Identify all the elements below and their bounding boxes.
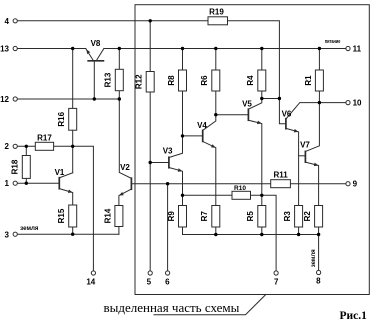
svg-text:7: 7 — [274, 277, 279, 286]
svg-text:R18: R18 — [11, 159, 20, 174]
svg-text:V6: V6 — [282, 109, 292, 118]
figure label Рис.1 — [340, 310, 368, 322]
node R8 bottom / V3 collector / V4 base — [181, 134, 184, 137]
svg-text:R15: R15 — [57, 208, 66, 223]
svg-text:14: 14 — [86, 277, 95, 286]
transistor V4 — [197, 121, 216, 148]
resistor R15 — [57, 205, 77, 227]
node R16 top on power bus — [71, 47, 74, 50]
terminal 11 circle — [346, 46, 350, 50]
svg-text:R6: R6 — [200, 75, 209, 86]
node R4 top on power bus — [260, 47, 263, 50]
wire V1 collector diagonal — [59, 173, 72, 178]
wire terminal 7 column — [262, 195, 276, 270]
wire V2 base to R11 left (y=183.7) — [131, 183, 270, 185]
node R19 left / R12 top junction — [149, 19, 152, 22]
wire V6 emitter / R3 column (x=298.6) — [286, 128, 299, 234]
pin number 12 — [0, 95, 9, 104]
node R12 bottom / V3 base — [149, 161, 152, 164]
wire ground rail left terminal3 to R14 (y=234.2) — [18, 233, 119, 235]
svg-text:земля: земля — [311, 249, 317, 267]
svg-text:V3: V3 — [163, 147, 173, 156]
svg-text:земля: земля — [20, 226, 39, 232]
wire R18 column (x=26.3) — [25, 146, 27, 183]
wire terminal 6 column — [167, 184, 169, 271]
svg-text:R11: R11 — [273, 170, 288, 179]
svg-text:R9: R9 — [167, 211, 176, 222]
terminal 8 circle — [317, 270, 321, 274]
node R18 bottom on terminal1 wire — [25, 182, 28, 185]
wire R16 top lead / V1 collector column (x=72.7) — [72, 49, 74, 173]
node V8 base on terminal12 wire — [93, 97, 96, 100]
svg-text:R4: R4 — [246, 75, 255, 86]
wire R11 right to terminal 9 — [290, 183, 345, 185]
wire V2 emitter / R14 column — [119, 189, 131, 234]
svg-text:R7: R7 — [200, 211, 209, 222]
resistor R18 — [11, 156, 31, 179]
svg-text:1: 1 — [5, 179, 10, 188]
wire V4 base — [183, 135, 203, 137]
resistor R13 — [104, 69, 124, 90]
node R2 bottom / terminal8 on ground rail — [317, 233, 320, 236]
pin number 13 — [0, 44, 9, 53]
wire node V5 collector to R19 leg (y=98.5) — [262, 98, 280, 100]
terminal 1 circle — [13, 181, 17, 185]
svg-text:V4: V4 — [197, 121, 207, 130]
node R1 top on power bus — [318, 47, 321, 50]
wire R8 column to V4 base node (x=182.5) — [182, 49, 184, 136]
terminal 3 circle — [13, 232, 17, 236]
svg-text:R14: R14 — [103, 208, 112, 223]
resistor R16 — [57, 108, 77, 130]
wire R13 column (x=119.5) — [118, 49, 120, 100]
svg-text:R2: R2 — [303, 211, 312, 222]
resistor R1 — [304, 70, 324, 91]
wire V3 emitter to R9 node — [169, 168, 183, 196]
node R16 bottom / V1 collector / R17 wire — [71, 145, 74, 148]
resistor R14 — [103, 206, 123, 227]
wire R1 column (x=319.4) — [318, 49, 320, 103]
terminal 9 circle — [346, 182, 350, 186]
wire terminal2-R17-terminal14 net — [18, 146, 94, 270]
wire ground rail inside box (y=234.5) — [183, 234, 319, 236]
box outline: выделенная часть схемы — [135, 5, 369, 295]
pin number 10 — [353, 99, 362, 108]
caption выделенная часть схемы — [104, 300, 240, 315]
resistor R10 — [232, 185, 251, 200]
caption leader line — [154, 295, 266, 315]
svg-text:выделенная часть схемы: выделенная часть схемы — [104, 300, 240, 315]
svg-text:12: 12 — [0, 95, 9, 104]
terminal 12 circle — [13, 97, 17, 101]
wire R9 column — [182, 195, 184, 234]
resistor R4 — [246, 70, 266, 91]
terminal 14 circle — [91, 271, 95, 275]
wire V6 collector to terminal 10 (y=102.6) — [286, 103, 346, 119]
svg-text:R3: R3 — [283, 211, 292, 222]
wire V7 emitter / R2 column (x=318.6) — [305, 162, 318, 234]
svg-text:5: 5 — [147, 277, 152, 286]
resistor R19 — [208, 7, 228, 24]
wire V6 base from R19 leg — [279, 99, 285, 124]
pin number 7 — [274, 277, 279, 286]
svg-text:V8: V8 — [91, 39, 101, 48]
svg-text:R10: R10 — [234, 185, 246, 192]
wire V3 collector — [169, 136, 183, 158]
pin number 6 — [165, 277, 170, 286]
wire terminal12 line (y=99) — [18, 98, 120, 100]
wire V8 base lead — [93, 61, 95, 99]
resistor R3 — [283, 206, 303, 228]
node R1 bottom / V7 collector / terminal10 — [318, 101, 321, 104]
resistor R8 — [167, 70, 187, 91]
svg-text:R19: R19 — [209, 7, 224, 16]
svg-text:R5: R5 — [246, 211, 255, 222]
svg-text:13: 13 — [0, 44, 9, 53]
wire net terminal4-R19-R12 top (y=20.8) — [18, 21, 280, 99]
wire R6 column to V4 collector node (x=215.8) — [215, 49, 217, 115]
wire V5 base — [216, 114, 248, 116]
svg-text:R17: R17 — [37, 133, 52, 142]
svg-text:8: 8 — [316, 276, 321, 285]
node R6 bottom / V4 collector / V5 base — [214, 113, 217, 116]
pin number 5 — [147, 277, 152, 286]
svg-text:6: 6 — [165, 277, 170, 286]
node R6 top on power bus — [214, 47, 217, 50]
svg-text:10: 10 — [353, 99, 362, 108]
wire V7 base tap — [299, 155, 305, 157]
pin number 3 — [5, 230, 10, 239]
node R5 bottom on ground rail — [260, 233, 263, 236]
svg-text:R13: R13 — [104, 72, 113, 87]
wire power bus V8 collector to terminal 11 (y=48.5) — [104, 48, 346, 50]
wire R10 net V3 emitter node to V5 emitter node (y=195.3) — [183, 194, 262, 196]
wire V5 collector — [248, 99, 261, 110]
svg-text:R1: R1 — [304, 75, 313, 86]
svg-text:V1: V1 — [55, 168, 65, 177]
wire V1 emitter / R15 column — [59, 189, 72, 235]
pin number 1 — [5, 179, 10, 188]
terminal 10 circle — [346, 101, 350, 105]
resistor R5 — [246, 206, 266, 228]
transistor V6 — [282, 109, 299, 132]
pin number 14 — [86, 277, 95, 286]
terminal 6 circle — [166, 271, 170, 275]
node R15 bottom on ground rail — [71, 233, 74, 236]
transistor V8 — [86, 39, 104, 61]
transistor V5 — [242, 100, 262, 125]
wire terminal 8 column — [318, 235, 320, 271]
pin number 8 — [316, 276, 321, 285]
transistor V1 — [55, 168, 73, 193]
resistor R7 — [200, 206, 220, 228]
wire terminal13 to V8 emitter (y=48.5) — [18, 48, 86, 50]
net label питание (terminal 11) — [325, 39, 341, 45]
node V3 emitter / R9 top / R10 left — [181, 194, 184, 197]
svg-text:4: 4 — [5, 17, 10, 26]
terminal 7 circle — [274, 271, 278, 275]
terminal 4 circle — [13, 19, 17, 23]
terminal 5 circle — [148, 271, 152, 275]
terminal 2 circle — [13, 144, 17, 148]
transistor V3 — [163, 147, 183, 172]
svg-text:R12: R12 — [135, 74, 144, 89]
node R4 bottom / V5 collector — [260, 97, 263, 100]
node R13 top on terminal13 wire — [118, 47, 121, 50]
wire V4 emitter to R7 and rail — [203, 141, 216, 234]
svg-text:питание: питание — [325, 39, 341, 45]
resistor R6 — [200, 70, 220, 91]
pin number 2 — [5, 142, 10, 151]
svg-text:2: 2 — [5, 142, 10, 151]
resistor R17 — [35, 133, 53, 150]
svg-text:9: 9 — [353, 180, 358, 189]
transistor V2 — [119, 163, 131, 196]
pin number 9 — [353, 180, 358, 189]
svg-text:R16: R16 — [57, 111, 66, 126]
svg-text:R8: R8 — [167, 75, 176, 86]
node R7 bottom on ground rail — [214, 233, 217, 236]
resistor R11 — [271, 170, 291, 187]
svg-text:V5: V5 — [242, 100, 252, 109]
node R19 leg / V6 base — [278, 97, 281, 100]
node terminal6 junction on V2 base wire — [166, 182, 169, 185]
pin number 11 — [353, 44, 362, 53]
wire V5 emitter / R5 column (x=261.8) — [248, 120, 261, 234]
resistor R2 — [303, 206, 323, 228]
wire V7 collector — [305, 103, 319, 152]
svg-text:V7: V7 — [300, 141, 310, 150]
transistor V7 — [300, 141, 318, 167]
net label земля (terminal 8, vertical) — [311, 249, 317, 267]
node R8 top on power bus — [181, 47, 184, 50]
net label земля (terminal 3) — [20, 226, 39, 232]
pin number 4 — [5, 17, 10, 26]
svg-text:Рис.1: Рис.1 — [340, 310, 368, 322]
wire V4 collector — [203, 115, 216, 131]
terminal 13 circle — [13, 46, 17, 50]
node R3 bottom on ground rail — [297, 233, 300, 236]
wire R4 column (x=261.8) — [261, 49, 263, 99]
node V5 emitter / R5 top / R10 right / terminal7 wire — [260, 194, 263, 197]
svg-text:V2: V2 — [120, 163, 130, 172]
node R13 bottom / V2 collector — [118, 97, 121, 100]
node R18 top on R17 wire — [25, 145, 28, 148]
resistor R12 — [135, 72, 155, 93]
wire R12 / V3 base / terminal5 column (x=150.2) — [149, 21, 151, 271]
svg-text:11: 11 — [353, 44, 362, 53]
wire V2 collector column (x=118.9) — [119, 99, 131, 178]
wire terminal 1 to V1 base — [18, 182, 59, 184]
svg-text:3: 3 — [5, 230, 10, 239]
resistor R9 — [167, 206, 187, 228]
wire V3 base — [150, 162, 168, 164]
